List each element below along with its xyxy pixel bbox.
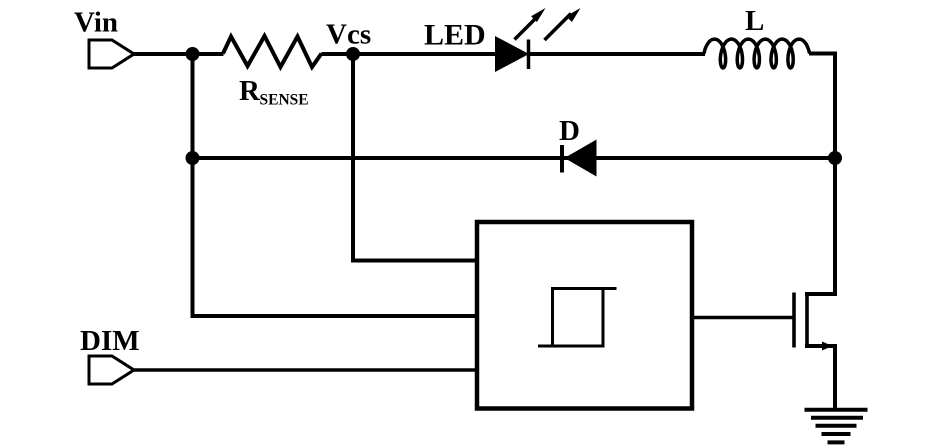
wire source to ground [833,344,837,411]
wire gate from block [692,316,794,320]
ground [805,410,868,443]
node Vcs [346,47,360,61]
wire Vin branch vertical and into block [193,54,478,316]
hysteresis symbol [538,289,617,347]
label LED [424,19,486,52]
wire LED to inductor [529,52,706,56]
LED light arrow 2 [545,8,581,40]
svg-text:R: R [239,75,261,107]
block U1 hysteretic controller [477,222,692,409]
svg-text:Vcs: Vcs [326,19,371,51]
wire Vcs branch vertical and into block [353,54,477,261]
transistor M1 channel bar [805,293,809,348]
LED diode [495,36,529,72]
svg-text:DIM: DIM [80,325,140,357]
node top-left junction [186,47,200,61]
svg-text:L: L [745,5,764,37]
label Vcs [326,19,371,51]
inductor L [704,39,810,68]
label RSENSE [239,75,309,109]
svg-text:LED: LED [424,19,486,52]
svg-text:SENSE: SENSE [260,92,309,109]
wire Vin to node [134,52,196,56]
port DIM [89,356,134,384]
diode D [562,140,597,177]
wire inductor to right rail corner [809,54,835,161]
wire node to resistor [193,52,224,56]
label D [559,115,580,147]
svg-text:D: D [559,115,580,147]
port Vin [89,40,134,68]
transistor M1 gate bar [792,293,796,348]
wire diode rail horizontal [193,156,836,160]
transistor M1 drain connection [805,292,835,296]
LED light arrow 1 [515,8,546,40]
resistor RSENSE [223,36,322,67]
label L [745,5,764,37]
label Vin [74,7,118,39]
svg-text:Vin: Vin [74,7,118,39]
node left diode rail junction [186,151,200,165]
wire DIM to block [134,368,477,372]
wire right rail down to drain [833,158,837,296]
label DIM [80,325,140,357]
node right rail [828,151,842,165]
wire resistor to Vcs node [322,52,354,56]
wire Vcs node to LED [353,52,497,56]
transistor M1 source connection with arrow [805,342,835,351]
